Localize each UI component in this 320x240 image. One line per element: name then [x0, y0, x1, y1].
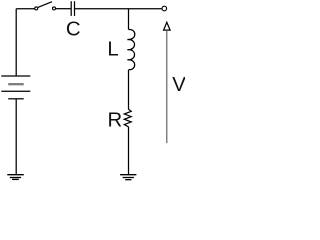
wire left vertical (source to battery): [15, 9, 17, 76]
inductor L1: [127, 29, 134, 69]
resistor R1: [124, 109, 131, 127]
switch S1: [35, 2, 56, 10]
wire junction to inductor: [128, 9, 130, 30]
svg-text:R: R: [108, 109, 123, 131]
wire resistor to ground: [128, 127, 130, 174]
wire switch to capacitor: [56, 8, 71, 10]
voltage arrow V (line): [166, 30, 168, 143]
wire capacitor to output terminal: [75, 8, 162, 10]
voltage arrow V (arrowhead): [164, 22, 171, 30]
wire top-left segment: [16, 8, 35, 10]
battery B1: [1, 76, 30, 99]
wire inductor to resistor: [128, 70, 130, 110]
wire battery to ground: [15, 99, 17, 174]
svg-text:L: L: [107, 39, 118, 61]
capacitor C: [71, 1, 74, 16]
svg-text:C: C: [66, 18, 81, 40]
ground right: [120, 175, 136, 180]
ground left: [7, 175, 24, 180]
svg-text:V: V: [172, 74, 185, 96]
node output terminal: [162, 6, 167, 11]
